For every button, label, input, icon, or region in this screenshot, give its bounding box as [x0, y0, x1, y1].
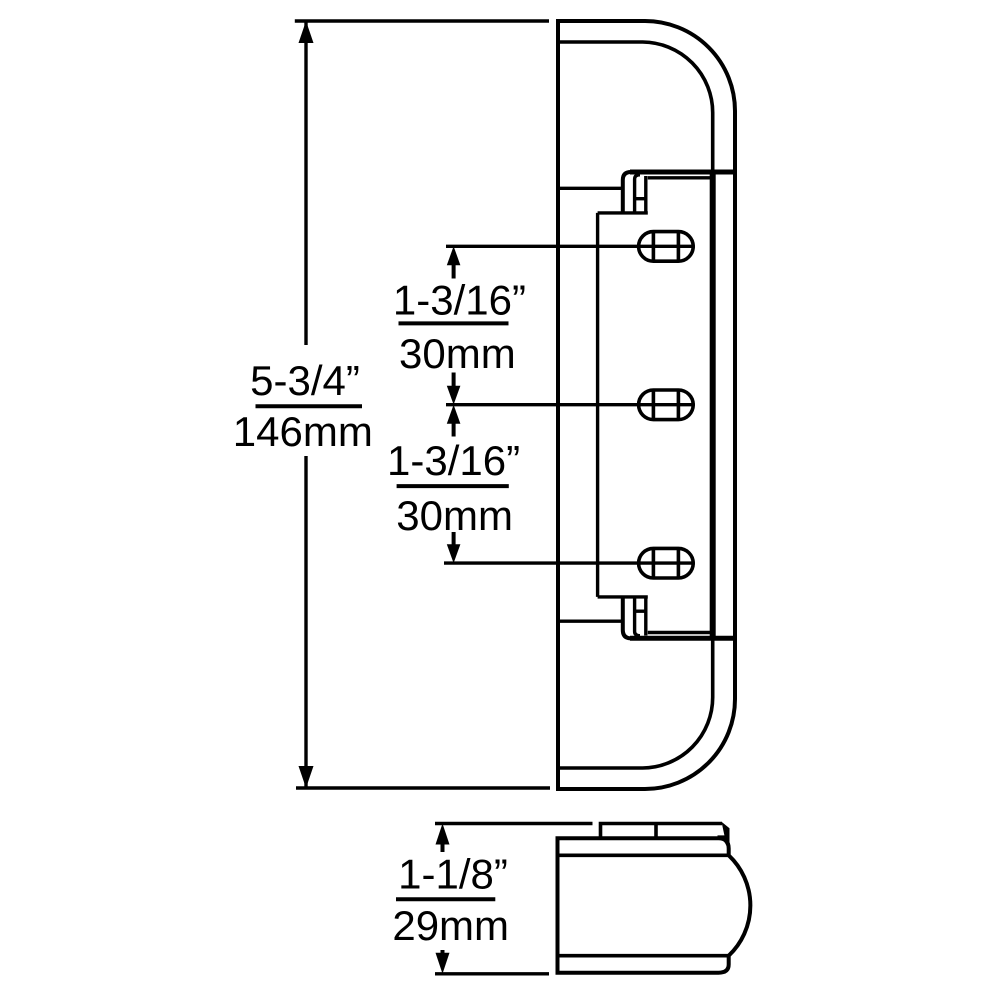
plate top edge (thick) — [630, 170, 737, 175]
plate bottom thin line — [648, 631, 711, 634]
bottom tab top / step line — [598, 595, 648, 598]
top tab right vertical — [644, 176, 647, 213]
extension line bottom (1-1/8) — [435, 972, 549, 975]
centerline hole 2 — [446, 403, 695, 406]
dim B arrow down head — [447, 544, 461, 563]
fraction bar lower — [397, 484, 509, 488]
top tab connector — [635, 197, 646, 200]
dim A arrow down shaft — [452, 373, 456, 391]
lower side line from body edge — [558, 620, 623, 623]
dim C arrow up shaft — [441, 835, 445, 852]
extension line top (1-1/8) — [435, 822, 593, 825]
centerline hole 1 — [446, 245, 695, 248]
top tab bottom / step line — [598, 211, 648, 214]
svg-text:30mm: 30mm — [396, 492, 513, 539]
extension line top (5-3/4) — [295, 19, 549, 22]
body inner wall line (side view) — [558, 42, 713, 768]
svg-text:1-1/8”: 1-1/8” — [398, 851, 508, 898]
fraction bar 1-1/8 — [396, 897, 495, 901]
body outer outline (side view) — [558, 21, 735, 789]
svg-text:1-3/16”: 1-3/16” — [393, 277, 526, 324]
bottom view tab divider — [654, 824, 658, 839]
slot hole 1 — [639, 232, 694, 262]
extension line bottom (5-3/4) — [296, 786, 550, 789]
bottom tab connector — [635, 610, 646, 613]
bottom view inner line lower — [558, 954, 729, 958]
plate top thin line — [648, 176, 711, 179]
upper side line from body edge — [558, 187, 623, 190]
slot hole 2 — [639, 390, 694, 420]
bottom view outline — [558, 838, 751, 973]
dim C arrow down head — [436, 953, 450, 974]
top tab outer corner — [623, 172, 631, 213]
svg-text:5-3/4”: 5-3/4” — [250, 357, 360, 404]
svg-text:146mm: 146mm — [233, 408, 373, 455]
plate left edge — [596, 213, 599, 597]
slot hole 3 — [639, 548, 694, 578]
dim A arrow up shaft — [452, 258, 456, 279]
bottom view tab right corner (thick) — [718, 822, 730, 846]
plate bottom edge (thick) — [630, 636, 737, 641]
top tab inner bend line — [635, 175, 640, 213]
fraction bar 5-3/4 — [256, 404, 363, 408]
fraction bar upper — [399, 321, 509, 325]
arrowhead down (5-3/4) — [299, 766, 314, 788]
bottom tab right vertical — [644, 597, 647, 636]
dimension line 5-3/4 upper part — [304, 21, 307, 345]
mounting plate right edge (thick) — [710, 172, 716, 639]
dimension line 5-3/4 lower part — [304, 456, 307, 788]
dim A arrow down head — [447, 386, 461, 405]
dim B arrow down shaft — [452, 532, 456, 550]
bottom view tab — [601, 824, 723, 839]
bottom view inner line upper — [558, 853, 729, 857]
arrowhead up (5-3/4) — [299, 21, 314, 43]
dim C arrow down shaft — [441, 950, 445, 963]
dim B arrow up shaft — [452, 418, 456, 437]
bottom tab inner bend line — [635, 597, 640, 636]
bottom tab outer corner — [623, 597, 631, 638]
dim A arrow up head — [447, 246, 461, 265]
svg-text:1-3/16”: 1-3/16” — [387, 437, 520, 484]
centerline hole 3 — [444, 561, 695, 564]
dim B arrow up head — [447, 405, 461, 424]
dim C arrow up head — [436, 824, 450, 845]
svg-text:30mm: 30mm — [399, 330, 516, 377]
svg-text:29mm: 29mm — [392, 902, 509, 949]
